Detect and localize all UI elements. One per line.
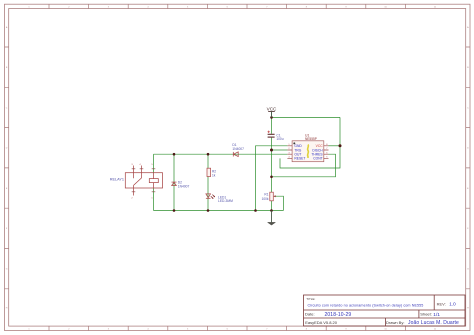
junction LED1 bottom (207, 209, 210, 212)
svg-text:1N4007: 1N4007 (232, 147, 244, 151)
svg-text:1N4007: 1N4007 (178, 184, 190, 188)
node TRG/THRES junction (270, 149, 273, 152)
wire TRG node to TRG pin (272, 149, 288, 151)
diode D1 (232, 143, 244, 157)
wire R2 LED1 branch (207, 154, 209, 210)
svg-text:LED-3MM: LED-3MM (218, 199, 233, 203)
wire VCC pin stub to right vertical (329, 145, 341, 147)
pin names GND TRG OUT RESET (294, 144, 305, 161)
svg-text:G: G (6, 269, 8, 271)
ground (268, 211, 276, 226)
yellow centre marking (307, 145, 310, 159)
svg-text:100u: 100u (276, 137, 283, 141)
svg-text:CONT: CONT (313, 157, 322, 161)
wire VCC stem down through C1 to R1 top (271, 111, 273, 192)
svg-text:EasyEDA V5.8.20: EasyEDA V5.8.20 (305, 320, 338, 325)
wire R1 wiper loop to bottom rail (275, 196, 283, 210)
svg-text:RESET: RESET (294, 157, 305, 161)
junction GND pin wire at bottom rail (254, 209, 257, 212)
svg-text:TITLE:: TITLE: (306, 297, 315, 301)
svg-text:1k: 1k (212, 173, 216, 177)
diode D2 (172, 181, 190, 189)
svg-text:Circuito com retardo no aciona: Circuito com retardo no acionamento (Swi… (308, 304, 424, 308)
pin names VCC DISCH THRES CONT (311, 144, 323, 161)
wire THRES loop to TRG node (272, 154, 336, 177)
wire relay coil bottom branch (153, 188, 155, 211)
junction D2 bottom (173, 209, 176, 212)
svg-text:1.0: 1.0 (449, 302, 456, 307)
VCC net flag (267, 107, 277, 118)
LED LED1 (206, 194, 233, 203)
junction VCC branch (270, 116, 273, 119)
wire VCC top rail (272, 116, 341, 118)
title block (304, 295, 466, 326)
svg-text:R1: R1 (264, 192, 268, 196)
potentiometer R1 (262, 192, 276, 201)
svg-text:100k: 100k (262, 197, 269, 201)
svg-text:1/1: 1/1 (433, 312, 440, 318)
svg-text:2018-10-29: 2018-10-29 (325, 312, 352, 318)
relay RELAY1 (110, 164, 163, 200)
junction R2 top (207, 153, 210, 156)
junction THRES loop tap (270, 176, 273, 179)
junction R1 bottom / ground (270, 209, 273, 212)
svg-text:NE555P: NE555P (305, 137, 317, 141)
pin numbers U1 1-4 and 8-5 (288, 144, 328, 159)
pin numbers RELAY1 (131, 164, 153, 200)
svg-text:RELAY1: RELAY1 (110, 178, 124, 182)
wire D2 branch (173, 154, 175, 210)
wire right vertical and RESET loop (280, 117, 340, 168)
svg-text:VCC: VCC (267, 107, 277, 112)
svg-text:Sheet:: Sheet: (420, 312, 432, 317)
svg-text:REV:: REV: (437, 301, 446, 306)
wire GND bottom rail (154, 210, 284, 212)
wire R1 bottom to ground (271, 201, 273, 211)
svg-text:Date:: Date: (305, 312, 315, 317)
junction VCC pin / RESET loop (339, 144, 342, 147)
svg-text:João Lucas M. Duarte: João Lucas M. Duarte (408, 320, 459, 326)
capacitor C1 (268, 131, 284, 141)
wire 555 GND pin to bottom rail (256, 146, 288, 211)
svg-text:Drawn By:: Drawn By: (386, 320, 404, 325)
resistor R2 (207, 168, 216, 177)
wire relay coil top branch (153, 154, 155, 173)
svg-text:G: G (467, 269, 469, 271)
timer U1 NE555P (287, 133, 328, 161)
pins U1 (287, 146, 328, 159)
junction D2 top (173, 153, 176, 156)
wire OUT net : 555 OUT pin through D1 to relay top rail (154, 153, 288, 155)
